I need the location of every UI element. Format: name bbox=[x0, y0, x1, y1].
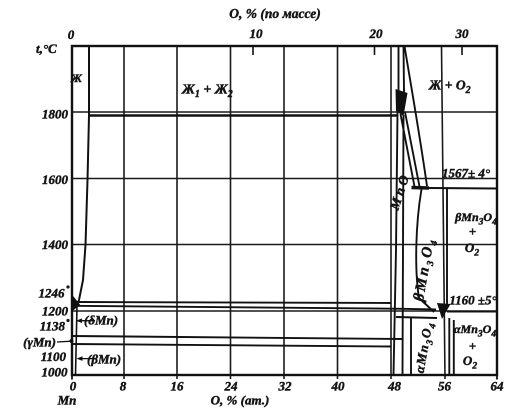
bottom tick 0 bbox=[71, 375, 73, 380]
svg-text:0: 0 bbox=[68, 27, 75, 42]
svg-text:40: 40 bbox=[331, 379, 346, 394]
liquidus junction blob bbox=[396, 89, 408, 116]
eutectoid triangle 1160 bbox=[437, 303, 451, 319]
top axis tick 10 mass% bbox=[252, 46, 254, 55]
top axis tick 30 mass% bbox=[461, 46, 463, 55]
1567 thick segment bbox=[412, 186, 430, 190]
svg-text:1000: 1000 bbox=[42, 365, 69, 380]
top axis tick 20 mass% bbox=[374, 46, 376, 55]
svg-text:8: 8 bbox=[120, 379, 127, 394]
gridline horizontal 1600 bbox=[72, 178, 497, 180]
svg-text:1800: 1800 bbox=[42, 107, 69, 122]
svg-text:0: 0 bbox=[70, 379, 77, 394]
svg-text:1600: 1600 bbox=[42, 172, 69, 187]
gridline horizontal 1200 bbox=[72, 310, 497, 312]
gamma-beta Mn line 1100 bbox=[72, 344, 391, 347]
svg-text:1200: 1200 bbox=[42, 304, 69, 319]
svg-text:Мп: Мп bbox=[57, 393, 77, 408]
svg-text:1246: 1246 bbox=[39, 286, 66, 301]
svg-text:64: 64 bbox=[491, 379, 505, 394]
svg-text:20: 20 bbox=[369, 26, 384, 41]
svg-text:+: + bbox=[469, 224, 476, 239]
liquidus boundary of liquid Mn bbox=[77, 46, 90, 306]
gridline vertical 40 at.% bbox=[337, 46, 339, 379]
svg-text:1400: 1400 bbox=[42, 237, 69, 252]
svg-text:56: 56 bbox=[438, 379, 452, 394]
phase line below eutectic bbox=[73, 306, 436, 310]
gridline vertical 56 at.% bbox=[442, 46, 446, 379]
svg-text:48: 48 bbox=[387, 379, 402, 394]
svg-text:+: + bbox=[469, 339, 476, 354]
svg-text:30: 30 bbox=[455, 26, 470, 41]
phase line MnO to triangle bbox=[396, 317, 437, 318]
MnO alpha boundary vertical bbox=[410, 318, 412, 376]
alpha Mn3O4 band right bbox=[453, 320, 455, 375]
beta Mn3O4 right boundary bbox=[446, 189, 448, 304]
eutectic horizontal 1242 bbox=[78, 302, 391, 303]
svg-text:24: 24 bbox=[224, 379, 239, 394]
alpha Mn3O4 band left bbox=[448, 318, 450, 375]
1567 line to right edge bbox=[429, 187, 497, 190]
svg-text:10: 10 bbox=[250, 26, 264, 41]
axis frame bbox=[72, 46, 497, 375]
monotectic line 1785 bbox=[89, 114, 397, 117]
diagonal liquid to 1567 right bbox=[405, 112, 420, 187]
beta Mn3O4 left curved boundary bbox=[416, 189, 434, 312]
gridline vertical 24 at.% bbox=[230, 46, 232, 379]
svg-text:Ж1 + Ж2: Ж1 + Ж2 bbox=[181, 83, 233, 101]
MnO left boundary upper bbox=[398, 46, 400, 92]
svg-text:32: 32 bbox=[278, 379, 293, 394]
gridline vertical 8 at.% bbox=[123, 46, 125, 379]
svg-text:1100: 1100 bbox=[41, 349, 67, 364]
svg-text:О, % (по массе): О, % (по массе) bbox=[229, 6, 321, 21]
liquidus O2 side diagonal bbox=[405, 46, 428, 186]
MnO left boundary lower bbox=[394, 112, 398, 375]
bottom tick 64 bbox=[496, 375, 498, 380]
svg-text:О, % (ат.): О, % (ат.) bbox=[211, 393, 270, 408]
svg-text:t,°C: t,°C bbox=[36, 41, 57, 56]
svg-text:(δМп): (δМп) bbox=[84, 313, 118, 328]
diagonal liquid to 1567 left bbox=[401, 114, 415, 187]
svg-text:1567± 4°: 1567± 4° bbox=[442, 166, 491, 181]
gridline horizontal 1800 bbox=[72, 111, 497, 113]
gridline vertical 16 at.% bbox=[176, 46, 178, 379]
MnO right boundary lower bbox=[403, 115, 404, 375]
MnO right boundary upper bbox=[403, 46, 406, 92]
svg-text:(γМп): (γМп) bbox=[23, 335, 56, 350]
Mn solvus vertical bbox=[76, 306, 78, 375]
svg-text:1138: 1138 bbox=[40, 319, 66, 334]
svg-text:1160 ±5°: 1160 ±5° bbox=[449, 293, 497, 308]
eutectic junction triangle at Mn side bbox=[72, 294, 81, 312]
delta-gamma Mn line 1138 bbox=[72, 336, 403, 339]
gridline vertical 48 at.% bbox=[390, 46, 392, 379]
1160 line bbox=[447, 311, 497, 313]
svg-text:16: 16 bbox=[171, 379, 185, 394]
gridline vertical 32 at.% bbox=[283, 46, 285, 379]
gridline horizontal 1400 bbox=[72, 244, 497, 246]
svg-text:Ж: Ж bbox=[70, 71, 83, 85]
